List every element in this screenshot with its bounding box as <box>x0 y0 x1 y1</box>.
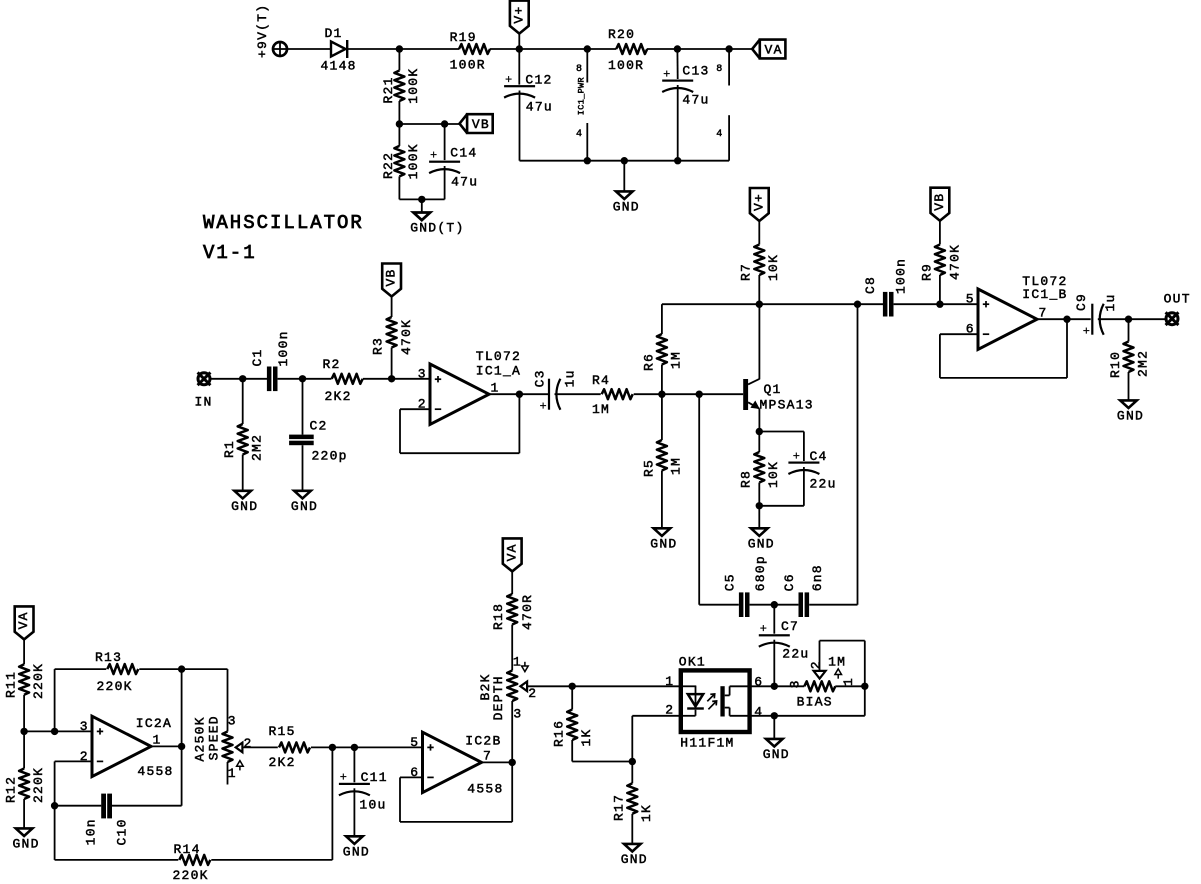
wire <box>1128 372 1130 400</box>
svg-text:H11F1M: H11F1M <box>680 736 734 751</box>
ground <box>621 844 648 867</box>
junction <box>351 744 358 751</box>
supply flag VB <box>931 188 950 221</box>
wire OK1 pin6 <box>750 685 775 687</box>
svg-text:R9: R9 <box>919 263 934 281</box>
resistor R16 1K <box>552 710 594 748</box>
wire <box>287 48 330 50</box>
wire <box>444 166 446 199</box>
wire <box>1128 319 1130 341</box>
junction <box>51 728 58 735</box>
wire collector <box>758 304 760 379</box>
capacitor C2 220p <box>289 419 348 464</box>
junction <box>418 196 425 203</box>
resistor R22 100K <box>381 143 421 179</box>
svg-text:2M2: 2M2 <box>250 434 265 461</box>
svg-text:+: + <box>663 67 671 81</box>
svg-text:2K2: 2K2 <box>325 389 352 404</box>
svg-text:10K: 10K <box>766 461 781 488</box>
svg-text:IC2A: IC2A <box>136 716 172 731</box>
svg-text:R21: R21 <box>381 76 396 103</box>
svg-text:4: 4 <box>754 704 762 719</box>
wire <box>661 471 663 529</box>
svg-text:A250K: A250K <box>192 716 207 761</box>
svg-text:C3: C3 <box>533 369 548 387</box>
svg-text:1: 1 <box>513 654 521 669</box>
svg-text:2: 2 <box>808 661 823 669</box>
svg-text:GND: GND <box>231 499 258 514</box>
supply flag VB <box>382 264 401 297</box>
wire <box>661 365 663 395</box>
node OUT <box>1164 291 1191 325</box>
svg-text:R12: R12 <box>4 776 19 803</box>
wire up <box>331 747 333 860</box>
capacitor C10 10n <box>84 794 130 846</box>
wire <box>112 805 182 807</box>
wire OK1 pin2 drop <box>631 716 633 762</box>
svg-text:5: 5 <box>966 292 974 307</box>
junction <box>329 744 336 751</box>
wire <box>242 455 244 491</box>
svg-text:47u: 47u <box>682 92 709 107</box>
wire <box>353 788 355 836</box>
supply terminal +9V(T) <box>255 4 287 58</box>
svg-text:470K: 470K <box>399 319 414 355</box>
op-amp IC1_B TL072 <box>966 274 1068 349</box>
wire <box>803 467 805 506</box>
wire <box>661 394 663 440</box>
wire <box>758 221 760 245</box>
svg-text:100R: 100R <box>608 58 644 73</box>
svg-text:1: 1 <box>491 381 499 396</box>
svg-text:+: + <box>793 449 801 463</box>
wire output <box>482 761 513 763</box>
wire <box>631 814 633 844</box>
svg-text:4558: 4558 <box>467 781 503 796</box>
wire <box>677 85 679 161</box>
wire <box>631 762 633 784</box>
resistor R21 100K <box>381 68 421 104</box>
capacitor C14 47u <box>429 145 478 189</box>
resistor R14 220K <box>173 842 211 883</box>
svg-text:DEPTH: DEPTH <box>491 675 506 720</box>
wire output column <box>181 669 183 806</box>
svg-text:D1: D1 <box>325 26 343 41</box>
wire <box>750 604 799 606</box>
wire <box>139 668 227 670</box>
wire <box>647 48 752 50</box>
svg-text:5: 5 <box>410 735 418 750</box>
resistor R10 2M2 <box>1108 342 1150 379</box>
svg-text:100K: 100K <box>406 68 421 104</box>
junction <box>771 683 778 690</box>
wire <box>894 303 978 305</box>
svg-text:C2: C2 <box>310 419 328 434</box>
ground <box>650 528 677 551</box>
wire <box>353 747 355 782</box>
svg-text:100K: 100K <box>406 143 421 179</box>
wire <box>699 604 739 606</box>
svg-text:IN: IN <box>195 395 213 410</box>
svg-text:R1: R1 <box>222 440 237 458</box>
wire <box>398 49 400 71</box>
wire <box>1098 318 1166 320</box>
svg-text:+: + <box>540 399 548 413</box>
svg-text:C5: C5 <box>723 573 738 591</box>
svg-text:4558: 4558 <box>137 764 173 779</box>
svg-text:10u: 10u <box>359 798 386 813</box>
potentiometer DEPTH B2K <box>478 654 536 721</box>
svg-text:R10: R10 <box>1108 351 1123 378</box>
wire <box>571 740 573 762</box>
wire <box>391 348 393 379</box>
wire <box>398 176 400 199</box>
wire <box>242 379 244 424</box>
junction <box>936 301 943 308</box>
svg-text:100R: 100R <box>450 58 486 73</box>
svg-text:3: 3 <box>513 706 521 721</box>
svg-text:220K: 220K <box>97 679 133 694</box>
wire <box>773 605 775 634</box>
wire collector rail <box>662 303 759 305</box>
svg-text:470R: 470R <box>520 594 535 630</box>
svg-text:Q1: Q1 <box>764 382 782 397</box>
wire <box>572 761 632 763</box>
resistor R2 2K2 <box>323 357 363 404</box>
junction <box>674 45 681 52</box>
svg-text:220K: 220K <box>31 663 46 699</box>
wire output <box>489 393 548 395</box>
svg-text:GND: GND <box>291 499 318 514</box>
wire <box>444 124 446 160</box>
svg-text:R20: R20 <box>608 27 635 42</box>
svg-text:C8: C8 <box>863 276 878 294</box>
wire <box>939 221 941 245</box>
svg-text:VB: VB <box>472 117 490 132</box>
junction <box>725 45 732 52</box>
resistor R15 2K2 <box>269 724 311 770</box>
svg-text:R16: R16 <box>552 720 567 747</box>
diode D1 4148 <box>321 26 357 74</box>
resistor R4 1M <box>592 373 633 417</box>
ground <box>748 528 775 551</box>
ground <box>291 491 318 514</box>
capacitor C7 22u <box>759 619 810 661</box>
wire <box>809 604 857 606</box>
svg-text:8: 8 <box>716 64 722 75</box>
resistor R11 220K <box>4 663 46 699</box>
wire <box>759 505 804 507</box>
wire down to SPEED pot <box>227 669 229 731</box>
svg-text:2: 2 <box>244 736 252 751</box>
svg-text:C13: C13 <box>682 64 709 79</box>
svg-text:47u: 47u <box>526 100 553 115</box>
svg-text:1: 1 <box>665 674 673 689</box>
ground <box>231 491 258 514</box>
junction <box>771 712 778 719</box>
ground <box>613 191 640 214</box>
capacitor C6 6n8 <box>782 564 825 617</box>
junction <box>771 601 778 608</box>
transistor Q1 MPSA13 <box>743 379 814 413</box>
svg-text:GND: GND <box>650 537 677 552</box>
wire <box>518 49 520 85</box>
wire wiper loop <box>819 641 821 672</box>
svg-text:OK1: OK1 <box>679 654 706 669</box>
svg-text:47u: 47u <box>451 174 478 189</box>
svg-text:GND: GND <box>621 852 648 867</box>
svg-text:220K: 220K <box>173 868 209 883</box>
svg-text:R18: R18 <box>491 603 506 630</box>
svg-text:6n8: 6n8 <box>810 564 825 591</box>
resistor R7 10K <box>739 245 781 282</box>
svg-text:1: 1 <box>153 733 161 748</box>
svg-text:1M: 1M <box>828 655 846 670</box>
svg-text:IC2B: IC2B <box>465 733 501 748</box>
wire <box>55 805 102 807</box>
wire <box>302 445 304 491</box>
wire feedback IC2B <box>400 776 423 778</box>
svg-text:BIAS: BIAS <box>797 695 833 710</box>
capacitor C8 100n <box>863 258 909 317</box>
junction <box>658 391 665 398</box>
wire GND(T) stem <box>421 199 423 212</box>
svg-text:+: + <box>430 149 438 163</box>
supply flag VA <box>752 40 785 59</box>
svg-text:R6: R6 <box>641 353 656 371</box>
svg-text:C11: C11 <box>361 770 388 785</box>
svg-text:OUT: OUT <box>1164 291 1191 306</box>
svg-text:VB: VB <box>932 193 947 211</box>
resistor R5 1M <box>641 440 683 477</box>
wire <box>302 379 304 435</box>
svg-text:SPEED: SPEED <box>207 715 222 760</box>
resistor R6 1M <box>641 334 683 371</box>
svg-text:IC1_PWR: IC1_PWR <box>577 77 587 115</box>
svg-text:MPSA13: MPSA13 <box>760 398 814 413</box>
svg-text:100n: 100n <box>276 330 291 366</box>
wire wiper to OK1 pin1 <box>527 685 681 687</box>
wire <box>519 91 521 161</box>
svg-text:7: 7 <box>483 749 491 764</box>
svg-text:1M: 1M <box>669 351 684 369</box>
svg-text:2K2: 2K2 <box>269 755 296 770</box>
supply flag VB <box>460 114 493 133</box>
IC IC2_PWR power pins 8/4 <box>716 49 729 161</box>
svg-text:R17: R17 <box>612 794 627 821</box>
wire <box>773 716 775 739</box>
IC IC1_PWR power pins 8/4 <box>576 49 587 161</box>
svg-text:GND: GND <box>1117 409 1144 424</box>
svg-text:4: 4 <box>716 129 722 140</box>
junction <box>854 301 861 308</box>
wire feedback IC1_B <box>940 333 978 335</box>
wire output <box>151 745 182 747</box>
svg-text:R8: R8 <box>739 470 754 488</box>
wire <box>571 686 573 709</box>
junction <box>584 157 591 164</box>
junction <box>1063 316 1070 323</box>
svg-text:GND: GND <box>343 845 370 860</box>
svg-text:22u: 22u <box>810 477 837 492</box>
svg-text:8: 8 <box>576 64 582 75</box>
svg-text:R2: R2 <box>323 357 341 372</box>
svg-text:IC1_A: IC1_A <box>476 364 521 379</box>
wire <box>490 48 617 50</box>
junction <box>696 391 703 398</box>
capacitor C4 22u <box>788 449 836 492</box>
resistor R17 1K <box>612 783 654 822</box>
svg-text:R11: R11 <box>4 671 19 698</box>
junction <box>621 157 628 164</box>
svg-text:R4: R4 <box>592 373 610 388</box>
wire <box>758 275 760 304</box>
svg-text:+9V(T): +9V(T) <box>255 4 270 58</box>
wire wiper to R15 <box>242 746 277 748</box>
wire output <box>1037 318 1091 320</box>
supply flag V+ <box>510 1 529 34</box>
svg-text:7: 7 <box>1039 306 1047 321</box>
junction <box>756 502 763 509</box>
wire <box>758 432 760 453</box>
svg-text:3: 3 <box>80 719 88 734</box>
svg-text:1: 1 <box>841 678 856 686</box>
svg-text:100n: 100n <box>894 258 909 294</box>
svg-text:C9: C9 <box>1074 293 1089 311</box>
svg-text:+: + <box>760 622 768 636</box>
wire pin6 node to BIAS <box>774 685 804 687</box>
wire <box>511 625 513 671</box>
svg-text:C7: C7 <box>781 619 799 634</box>
wire <box>511 571 513 594</box>
junction <box>674 157 681 164</box>
capacitor C9 1u <box>1074 293 1118 339</box>
svg-text:1K: 1K <box>639 804 654 822</box>
wire pin4 row <box>750 715 865 717</box>
wire <box>939 275 941 304</box>
wire <box>758 483 760 506</box>
junction <box>516 391 523 398</box>
wire feedback IC1_A <box>400 408 430 410</box>
svg-text:680p: 680p <box>753 555 768 591</box>
wire to IC2A +in <box>24 730 92 732</box>
svg-text:4: 4 <box>576 129 582 140</box>
svg-text:V+: V+ <box>511 5 526 23</box>
junction <box>20 728 27 735</box>
wire <box>363 378 430 380</box>
op-amp IC2B 4558 <box>410 732 503 796</box>
ground <box>763 739 790 762</box>
svg-text:1u: 1u <box>1103 293 1118 311</box>
svg-text:R19: R19 <box>450 30 477 45</box>
svg-text:C12: C12 <box>525 72 552 87</box>
svg-text:R7: R7 <box>739 263 754 281</box>
svg-text:C1: C1 <box>250 348 265 366</box>
svg-text:2M2: 2M2 <box>1135 350 1150 377</box>
wire <box>210 378 267 380</box>
svg-text:470K: 470K <box>947 244 962 280</box>
svg-text:VB: VB <box>384 268 399 286</box>
capacitor C13 47u <box>662 64 709 108</box>
ground <box>343 836 370 859</box>
node IN <box>195 372 213 409</box>
wire <box>634 393 744 395</box>
junction <box>299 375 306 382</box>
wire <box>758 506 760 529</box>
wire <box>311 746 423 748</box>
svg-text:R13: R13 <box>95 650 122 665</box>
junction <box>509 759 516 766</box>
supply flag VA <box>503 538 522 571</box>
ground <box>1117 400 1144 423</box>
svg-text:220p: 220p <box>312 449 348 464</box>
potentiometer BIAS 1M <box>787 655 856 710</box>
svg-text:C14: C14 <box>450 145 477 160</box>
wire <box>391 297 393 318</box>
svg-text:C4: C4 <box>810 449 828 464</box>
resistor R20 100R <box>608 27 647 73</box>
resistor R13 220K <box>95 650 138 694</box>
resistor R19 100R <box>450 30 490 72</box>
wire <box>23 695 25 732</box>
junction <box>584 45 591 52</box>
wire <box>661 304 663 334</box>
svg-text:3: 3 <box>418 367 426 382</box>
resistor R18 470R <box>491 594 535 630</box>
supply flag V+ <box>750 188 769 221</box>
svg-text:GND: GND <box>613 200 640 215</box>
op-amp IC2A 4558 <box>80 716 174 779</box>
svg-text:1M: 1M <box>669 457 684 475</box>
wire OK1 pin2 <box>632 715 681 717</box>
svg-text:10n: 10n <box>84 818 99 845</box>
junction <box>629 758 636 765</box>
junction <box>178 665 185 672</box>
wire emitter <box>758 409 760 432</box>
wire VB tap <box>399 123 459 125</box>
junction <box>569 683 576 690</box>
wire <box>759 431 804 433</box>
svg-text:+: + <box>340 771 348 785</box>
wire <box>835 685 865 687</box>
wire ground rail <box>520 160 730 162</box>
wire R14 loop <box>54 806 56 860</box>
wire pot stub <box>227 762 229 785</box>
wire <box>676 49 678 79</box>
wire <box>803 432 805 462</box>
capacitor C1 100n <box>250 330 291 391</box>
svg-text:1u: 1u <box>562 369 577 387</box>
svg-text:VA: VA <box>504 543 519 561</box>
junction <box>51 802 58 809</box>
svg-text:C10: C10 <box>115 818 130 845</box>
svg-text:+: + <box>1083 324 1091 338</box>
svg-text:+: + <box>505 73 513 87</box>
svg-text:R14: R14 <box>174 842 201 857</box>
resistor R9 470K <box>919 244 962 281</box>
svg-text:VA: VA <box>16 611 31 629</box>
capacitor C3 1u <box>533 369 578 413</box>
svg-text:C6: C6 <box>782 573 797 591</box>
supply flag VA <box>15 606 34 639</box>
junction <box>396 120 403 127</box>
svg-text:R5: R5 <box>641 459 656 477</box>
junction <box>239 375 246 382</box>
svg-text:V1-1: V1-1 <box>203 242 257 264</box>
svg-text:GND(T): GND(T) <box>410 221 464 236</box>
svg-text:GND: GND <box>763 747 790 762</box>
wire to C8 <box>759 303 883 305</box>
